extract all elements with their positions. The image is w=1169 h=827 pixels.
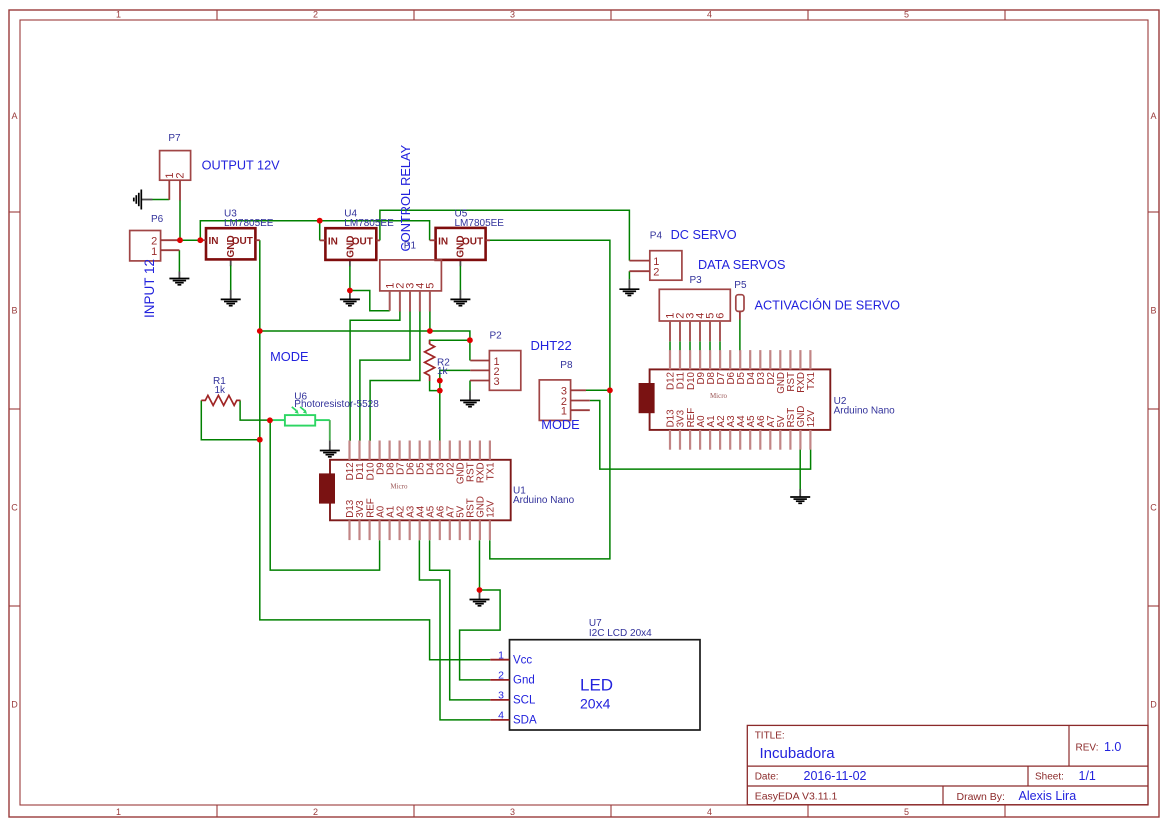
svg-text:5: 5 <box>904 807 909 817</box>
svg-text:TX1: TX1 <box>806 372 817 390</box>
connector P8 <box>539 380 590 421</box>
svg-text:GND: GND <box>226 235 237 257</box>
svg-text:B: B <box>1150 306 1156 316</box>
photoresistor U6 <box>273 407 315 426</box>
svg-text:TITLE:: TITLE: <box>755 731 785 742</box>
microcontroller U1 Arduino Nano <box>319 441 511 541</box>
svg-text:P3: P3 <box>690 275 703 286</box>
connector P1 <box>380 260 442 312</box>
wire U2.GND to ground <box>799 449 801 489</box>
junction P7.2/P6.2 <box>177 237 183 243</box>
svg-text:3: 3 <box>510 807 515 817</box>
junction 5V rail at U3.OUT riser <box>257 328 263 334</box>
wire P1.5 to 5V rail <box>429 312 431 332</box>
svg-text:Sheet:: Sheet: <box>1035 772 1064 783</box>
svg-text:Gnd: Gnd <box>513 675 535 687</box>
svg-text:P4: P4 <box>650 231 663 242</box>
junction R2 top tap <box>467 337 473 343</box>
svg-text:Date:: Date: <box>755 772 779 783</box>
wires P3 pins to U2 D12-D7 <box>669 341 671 351</box>
svg-text:INPUT 12: INPUT 12 <box>142 259 157 318</box>
ground U3 <box>221 290 241 306</box>
ground U2 GND <box>790 489 810 503</box>
connector P2 <box>470 351 521 391</box>
wire U5.GND to ground <box>459 266 461 290</box>
wire U1.A4 to LCD SDA <box>419 540 490 720</box>
junction P1.1 on U4.GND <box>347 288 353 294</box>
wire P1.1 to U4.GND <box>350 291 390 311</box>
svg-text:4: 4 <box>707 807 712 817</box>
svg-text:P2: P2 <box>490 331 503 342</box>
svg-text:Incubadora: Incubadora <box>760 745 836 762</box>
wire R2 bottom join <box>430 381 440 391</box>
wire P7.1 to ground <box>153 199 170 201</box>
wire U4.GND pin stub <box>349 260 351 266</box>
wire U4.GND to ground <box>349 266 351 291</box>
svg-text:LM7805EE: LM7805EE <box>224 218 274 229</box>
svg-text:Micro: Micro <box>390 483 408 491</box>
svg-text:C: C <box>1150 503 1157 513</box>
svg-text:6: 6 <box>715 313 727 319</box>
svg-text:Arduino Nano: Arduino Nano <box>834 406 896 417</box>
junction P2.2 riser upper <box>437 378 443 384</box>
svg-text:4: 4 <box>707 10 712 20</box>
connector P7 <box>160 151 191 201</box>
svg-text:IN: IN <box>438 236 448 247</box>
svg-text:Vcc: Vcc <box>513 655 532 667</box>
svg-text:P8: P8 <box>560 360 573 371</box>
junction U4.IN tap <box>317 218 323 224</box>
svg-text:5: 5 <box>904 10 909 20</box>
junction P8.3 tap <box>607 387 613 393</box>
svg-text:2016-11-02: 2016-11-02 <box>804 769 867 783</box>
wire R1 left to 5V rail <box>201 400 259 439</box>
svg-text:P5: P5 <box>734 280 747 291</box>
wire P5 to U2.D5 <box>739 320 741 352</box>
svg-text:GND: GND <box>346 235 357 257</box>
ground P4 pin2 <box>619 279 639 295</box>
svg-text:LED: LED <box>580 675 613 694</box>
wire U3.GND pin stub <box>230 259 232 266</box>
resistor R1 <box>201 395 240 405</box>
svg-text:Micro: Micro <box>710 392 728 400</box>
wire U3.GND to ground <box>230 266 232 291</box>
svg-text:IN: IN <box>328 236 338 247</box>
microcontroller U2 Arduino Nano <box>639 350 831 450</box>
LCD module U7 I2C LCD 20x4 <box>490 640 700 730</box>
svg-text:CONTROL RELAY: CONTROL RELAY <box>398 144 413 251</box>
svg-text:DATA SERVOS: DATA SERVOS <box>698 258 785 272</box>
svg-text:3: 3 <box>510 10 515 20</box>
wire net 5V: U3.OUT down-left rail to LCD Vcc <box>260 240 491 660</box>
wire net 12V input: P6.2 to U3.IN <box>177 239 204 241</box>
wire P4.2 to ground <box>628 271 630 279</box>
connector P6 <box>130 231 180 261</box>
ground P2 pin3 <box>460 391 480 407</box>
wire U1.A5 to LCD SCL <box>430 540 491 700</box>
wire U5.OUT to U1.12V <box>490 240 610 559</box>
svg-text:IN: IN <box>209 236 219 247</box>
svg-text:DHT22: DHT22 <box>531 338 572 353</box>
svg-text:4: 4 <box>498 710 504 722</box>
svg-text:LM7805EE: LM7805EE <box>455 218 505 229</box>
svg-text:1/1: 1/1 <box>1079 769 1096 783</box>
ground U4 <box>340 291 360 306</box>
junction A0/photoresistor node <box>267 417 273 423</box>
svg-text:1: 1 <box>498 649 504 661</box>
regulator U4 LM7805EE <box>320 228 380 260</box>
svg-text:C: C <box>11 503 18 513</box>
wire branch to R2 top <box>430 340 470 344</box>
wire P8.2 to U2.12V <box>590 401 811 470</box>
svg-text:MODE: MODE <box>541 417 579 432</box>
svg-text:2: 2 <box>313 807 318 817</box>
wire U1.A0 to photoresistor node <box>270 420 379 570</box>
svg-text:Photoresistor-5528: Photoresistor-5528 <box>294 399 379 410</box>
svg-text:P6: P6 <box>151 214 164 225</box>
svg-text:1k: 1k <box>215 385 227 396</box>
title block <box>747 725 1148 804</box>
svg-text:SCL: SCL <box>513 695 536 707</box>
wire P7.2 drop to 12V net <box>179 200 181 240</box>
connector P5 <box>736 295 744 320</box>
svg-text:Drawn By:: Drawn By: <box>957 791 1005 803</box>
svg-text:A: A <box>11 111 17 121</box>
svg-text:1: 1 <box>561 406 567 418</box>
wire U5.GND pin stub <box>459 260 461 266</box>
resistor R2 <box>425 340 435 381</box>
svg-text:1k: 1k <box>437 366 449 377</box>
wire U6 right to ground <box>316 419 330 421</box>
svg-text:1: 1 <box>151 246 157 258</box>
svg-text:2: 2 <box>653 267 659 279</box>
svg-text:1.0: 1.0 <box>1104 740 1121 754</box>
svg-text:2: 2 <box>498 670 504 682</box>
svg-text:D: D <box>1150 700 1157 710</box>
connector P4 <box>629 251 681 281</box>
svg-text:1: 1 <box>116 10 121 20</box>
svg-text:I2C LCD 20x4: I2C LCD 20x4 <box>589 628 652 639</box>
svg-text:REV:: REV: <box>1076 743 1099 754</box>
svg-text:A: A <box>1150 111 1156 121</box>
wire 12V rail to U4.IN and U5.IN <box>200 221 429 241</box>
svg-text:Arduino Nano: Arduino Nano <box>513 495 575 506</box>
wire R1 right to U6 left <box>240 400 273 420</box>
svg-text:5: 5 <box>425 283 437 289</box>
ground P6 pin1 <box>169 272 189 285</box>
svg-text:SDA: SDA <box>513 715 537 727</box>
svg-text:ACTIVACIÓN DE SERVO: ACTIVACIÓN DE SERVO <box>755 298 901 313</box>
regulator U3 LM7805EE <box>203 228 260 259</box>
wire P1.2 to U1.D12 <box>350 312 400 442</box>
wire 5V rail branch to P2.1 <box>260 331 470 361</box>
ground U6 <box>320 440 340 456</box>
svg-text:TX1: TX1 <box>486 462 497 480</box>
wire P2.2 to U1.D3 <box>440 370 471 441</box>
junction 12V rail riser <box>197 237 203 243</box>
svg-text:3: 3 <box>498 690 504 702</box>
svg-text:EasyEDA V3.11.1: EasyEDA V3.11.1 <box>755 790 838 802</box>
svg-text:3: 3 <box>494 376 500 388</box>
svg-text:P7: P7 <box>168 133 181 144</box>
wire P6.1 to ground <box>178 250 180 271</box>
junction P1.5 on 5V rail <box>427 328 433 334</box>
svg-text:2: 2 <box>175 172 187 178</box>
wire U4.OUT to P4.1 <box>380 210 630 260</box>
svg-text:LM7805EE: LM7805EE <box>344 218 394 229</box>
junction U1.GND split <box>477 587 483 593</box>
svg-text:MODE: MODE <box>270 349 308 364</box>
wire P1.3 to U1.D11 <box>360 312 410 442</box>
svg-text:1: 1 <box>116 807 121 817</box>
svg-text:B: B <box>11 306 17 316</box>
svg-text:DC SERVO: DC SERVO <box>671 228 737 242</box>
regulator U5 LM7805EE <box>430 228 490 260</box>
wire U1.GND to ground and LCD Gnd <box>479 540 481 590</box>
svg-text:Alexis Lira: Alexis Lira <box>1019 789 1077 803</box>
junction R1 left tap <box>257 437 263 443</box>
svg-text:20x4: 20x4 <box>580 696 611 712</box>
svg-text:12V: 12V <box>806 410 817 428</box>
wire U4.IN drop <box>319 221 321 241</box>
connector P3 <box>659 289 730 341</box>
svg-text:12V: 12V <box>486 500 497 518</box>
wire P8.3 to U5.OUT net <box>586 389 610 391</box>
svg-text:D: D <box>11 700 18 710</box>
junction R2 bottom tap <box>437 388 443 394</box>
svg-text:OUTPUT 12V: OUTPUT 12V <box>202 159 281 173</box>
svg-text:2: 2 <box>313 10 318 20</box>
svg-text:GND: GND <box>456 235 467 257</box>
ground P7 pin1 (rotated left) <box>134 190 153 210</box>
ground U5 <box>450 290 470 306</box>
wire P2.3 to ground <box>469 381 471 391</box>
wire P1.4 to U1.D10 <box>370 312 420 442</box>
ground U1 GND <box>470 590 490 606</box>
